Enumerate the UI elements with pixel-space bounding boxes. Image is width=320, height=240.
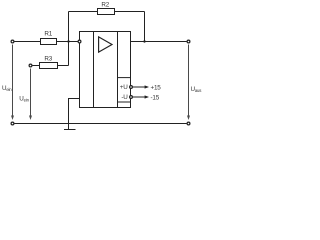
voltage arrow Uein1 (12, 45, 14, 117)
op-amp internal divider right (117, 32, 119, 108)
op-amp internal divider left (93, 32, 95, 108)
node summing vertical wire (68, 12, 70, 66)
svg-text:Uaus: Uaus (191, 86, 202, 93)
svg-text:R1: R1 (44, 31, 52, 38)
svg-text:R2: R2 (101, 2, 109, 9)
op-amp power cell top line (118, 77, 131, 79)
svg-text:-15: -15 (151, 94, 160, 101)
wire input2 to R3 (33, 65, 40, 67)
svg-text:+15: +15 (151, 84, 162, 91)
voltage arrow Uaus (188, 45, 190, 117)
wire R2 right (115, 11, 145, 13)
svg-text:+U: +U (120, 84, 128, 91)
wire -15 supply arrow (133, 96, 145, 98)
ground (68, 124, 70, 130)
junction summing node (67, 40, 69, 42)
wire R3 to summing node (58, 65, 69, 67)
wire R1 to summing node (57, 41, 78, 43)
resistor R2 (98, 9, 115, 15)
wire non-inverting input (69, 99, 80, 124)
wire output (131, 41, 187, 43)
wire feedback vertical (144, 12, 146, 42)
op-amp power cell bottom line (118, 101, 131, 103)
svg-text:Uein: Uein (19, 96, 29, 103)
wire +15 supply arrow (133, 86, 145, 88)
svg-text:-U: -U (121, 94, 128, 101)
op-amp inverting input circle (78, 40, 81, 43)
resistor R3 (40, 63, 58, 69)
node C terminal output (187, 40, 190, 43)
wire R2 left (69, 11, 98, 13)
node B terminal input 2 (29, 64, 32, 67)
junction feedback to output (143, 40, 145, 42)
wire input1 to R1 (15, 41, 41, 43)
pin +U circle (130, 86, 133, 89)
wire bottom rail (15, 123, 187, 125)
node D terminal bottom left (11, 122, 14, 125)
pin -U circle (130, 96, 133, 99)
resistor R1 (41, 39, 57, 45)
svg-text:R3: R3 (44, 55, 52, 62)
node E terminal bottom right (187, 122, 190, 125)
node A terminal input 1 (11, 40, 14, 43)
op-amp amplifier triangle (99, 37, 112, 52)
voltage arrow Uein2 (30, 69, 32, 117)
svg-text:Uein: Uein (2, 85, 12, 92)
op-amp U1 body (80, 32, 131, 108)
